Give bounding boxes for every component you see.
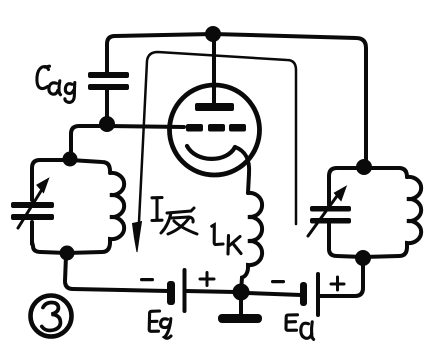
battery Eg bbox=[167, 268, 187, 313]
arrow I-feedback loop bbox=[139, 52, 296, 224]
wire Eg to center junction bbox=[186, 291, 235, 292]
wire top bus from Cag over anode to right side bbox=[107, 34, 366, 160]
tube grid (dashed) bbox=[186, 124, 246, 132]
wire center junction to battery Ea bbox=[247, 293, 301, 295]
wire grid node to tube grid bbox=[107, 126, 184, 127]
label figure number 3 (circled) bbox=[31, 296, 72, 337]
node left tank bottom bbox=[60, 246, 75, 261]
capacitor C2 variable (right tank) bbox=[327, 176, 331, 205]
node top junction (anode feed) bbox=[205, 26, 221, 42]
arrow of variable capacitor C2 bbox=[308, 196, 337, 236]
label minus (Ea left) bbox=[271, 280, 285, 283]
capacitor C1 variable (left tank) bbox=[30, 170, 34, 200]
node right tank top bbox=[356, 159, 372, 175]
tube V1 envelope bbox=[170, 85, 260, 175]
label Ea bbox=[286, 315, 314, 340]
label plus (Ea right) bbox=[331, 277, 344, 290]
ground bbox=[239, 294, 243, 314]
label Eg bbox=[149, 311, 171, 338]
node center junction bbox=[233, 284, 250, 301]
tube cathode bbox=[187, 146, 235, 159]
wire left tank bottom to battery Eg bbox=[65, 256, 168, 291]
label minus (Eg left) bbox=[140, 278, 154, 281]
battery Ea bbox=[300, 272, 320, 317]
node right tank bottom bbox=[355, 250, 371, 266]
capacitor Cag bbox=[88, 72, 129, 90]
wire LK bottom to center junction bbox=[241, 265, 248, 289]
wire Cag top lead bbox=[105, 44, 109, 72]
label plus (Eg right) bbox=[200, 273, 214, 286]
inductor LK (cathode coil) bbox=[248, 193, 262, 266]
wire left tank top bbox=[32, 160, 110, 172]
wire Cag bottom lead to grid node bbox=[105, 90, 109, 120]
wire right tank top bbox=[329, 168, 407, 178]
wire left tank bottom bbox=[32, 242, 110, 253]
arrow of variable capacitor C1 bbox=[18, 191, 41, 228]
wire right tank bottom bbox=[329, 247, 407, 257]
tube anode plate bbox=[195, 103, 234, 111]
wire Ea to right tank bottom bbox=[320, 262, 363, 296]
label 反 (feedback) hand-drawn strokes bbox=[161, 208, 197, 234]
label Cag bbox=[37, 66, 75, 102]
inductor L2 (right tank coil) bbox=[407, 177, 421, 247]
node grid junction bbox=[99, 116, 115, 132]
label I (feedback current) bbox=[152, 198, 162, 221]
wire cathode lead to LK bbox=[235, 147, 249, 193]
label LK bbox=[212, 225, 241, 254]
node left tank top bbox=[63, 152, 78, 167]
inductor L1 (left tank coil) bbox=[110, 173, 124, 243]
wire grid node down-left to left tank bbox=[71, 126, 101, 155]
tube anode lead bbox=[212, 42, 216, 103]
